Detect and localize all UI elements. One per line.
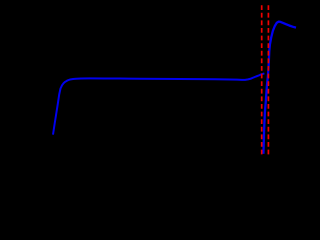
blue curve steep branch with peak and tail	[263, 22, 296, 154]
chart plot area	[0, 0, 300, 191]
red dashed vline left	[261, 5, 263, 156]
blue curve main branch	[53, 73, 264, 134]
red dashed vline right	[267, 5, 269, 156]
